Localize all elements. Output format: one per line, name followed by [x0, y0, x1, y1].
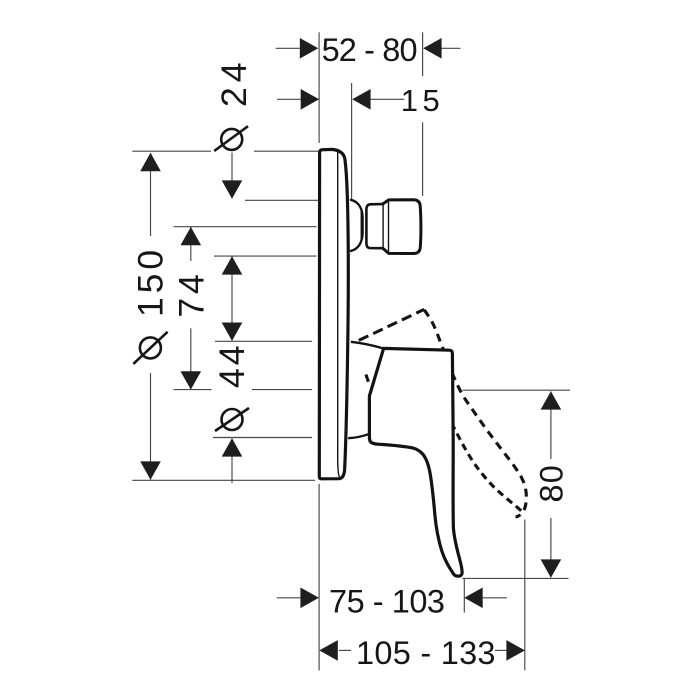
svg-text:52 - 80: 52 - 80 — [322, 32, 418, 68]
svg-text:44: 44 — [212, 344, 252, 388]
svg-text:150: 150 — [131, 248, 171, 317]
svg-text:75 - 103: 75 - 103 — [329, 584, 445, 620]
svg-text:105 - 133: 105 - 133 — [356, 635, 496, 671]
svg-text:80: 80 — [533, 464, 569, 503]
